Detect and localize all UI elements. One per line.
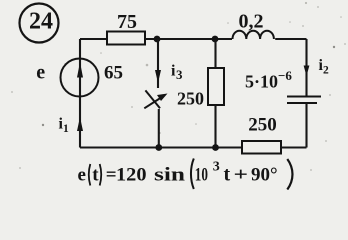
svg-text:0,2: 0,2 [239, 11, 264, 33]
wire top rail middle segment [145, 38, 232, 40]
svg-text:250: 250 [248, 115, 277, 136]
formula e(t)=120 sin(10^3 t + 90 deg) [78, 159, 293, 190]
wire top rail left segment [80, 38, 107, 40]
node dot bottom i3 branch [155, 144, 162, 151]
svg-text:=: = [106, 165, 117, 186]
svg-text:t: t [224, 164, 231, 186]
svg-text:e: e [36, 62, 45, 84]
node dot top 250 branch [212, 36, 219, 43]
current arrow i2 [304, 66, 310, 77]
wire right vertical upper [305, 39, 307, 96]
wire right vertical lower [305, 103, 307, 148]
problem number badge 24 [20, 4, 59, 43]
svg-text:10: 10 [195, 165, 208, 186]
wire 250 branch upper stub [214, 39, 216, 68]
svg-text:120: 120 [116, 165, 147, 186]
current arrow i3 [155, 70, 161, 83]
svg-text:75: 75 [117, 11, 137, 33]
svg-text:250: 250 [177, 89, 204, 109]
wire top rail right segment [275, 38, 306, 40]
wire bottom rail right segment [281, 146, 307, 148]
wire i3 branch lower stub [158, 109, 160, 148]
wire 250 branch lower stub [214, 105, 216, 148]
node dot bottom 250 branch [212, 144, 219, 151]
svg-text:24: 24 [29, 9, 53, 35]
wire i3 branch upper stub [157, 39, 159, 88]
svg-text:3: 3 [213, 160, 220, 175]
switch [144, 90, 167, 108]
voltage source e [61, 59, 99, 97]
svg-text:90°: 90° [251, 165, 278, 186]
svg-text:sin: sin [154, 165, 186, 186]
svg-text:e: e [78, 165, 86, 186]
resistor 75 [107, 32, 145, 45]
svg-text:65: 65 [104, 63, 123, 84]
resistor 250 vertical [208, 68, 224, 105]
wire left vertical [79, 39, 81, 148]
resistor 250 horizontal [242, 141, 281, 154]
wire bottom rail left segment [80, 146, 242, 148]
current arrow i1 [77, 117, 83, 131]
capacitor 5e-6 [287, 97, 321, 104]
svg-text:t: t [92, 165, 99, 186]
svg-text:+: + [234, 165, 249, 186]
inductor 0.2 [233, 31, 274, 39]
node dot top i3 branch [154, 36, 161, 43]
